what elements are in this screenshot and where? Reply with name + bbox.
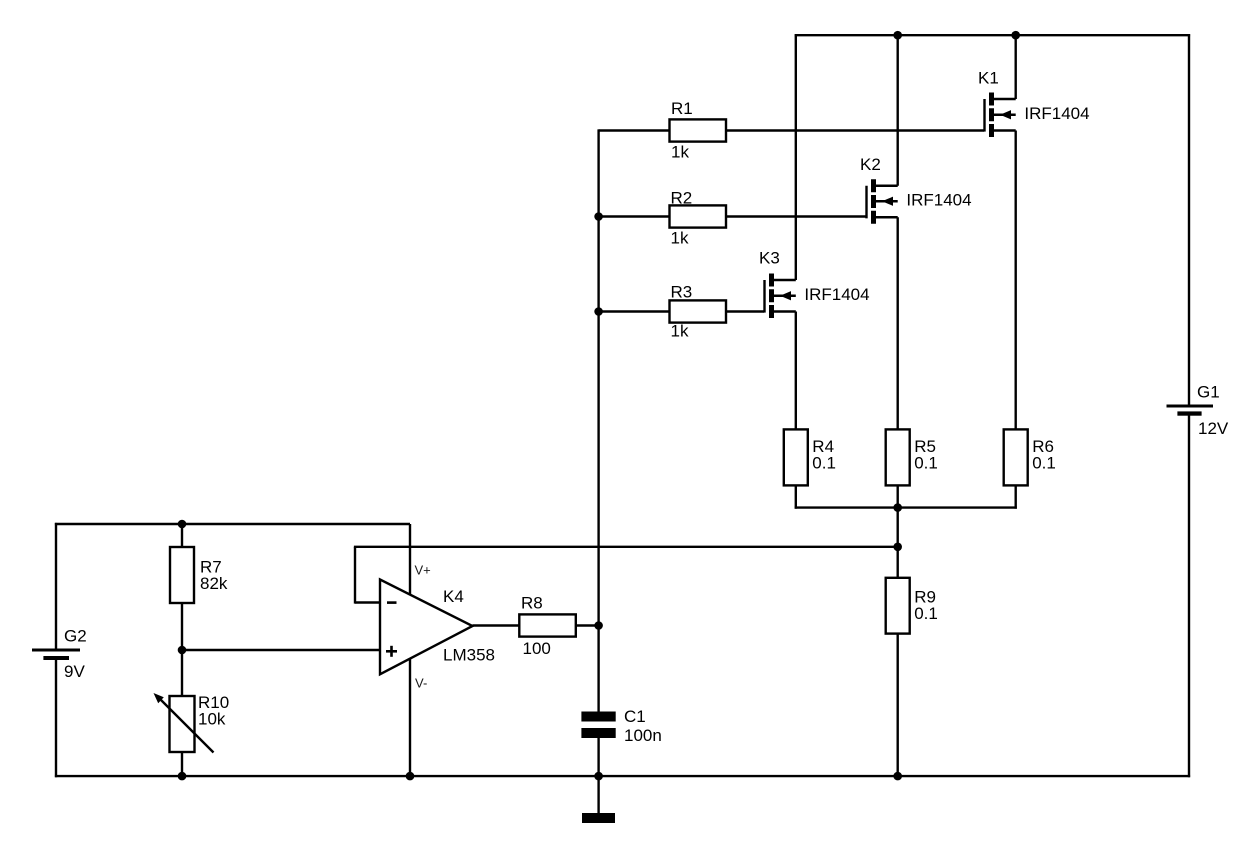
wire K3 source drop to R4 [795,312,797,430]
wire top rail [795,34,1190,36]
wire left bus G2 upper [55,523,57,649]
svg-text:R8: R8 [521,594,543,613]
transistor K3 IRF1404 [765,274,796,319]
wire top-left rail [55,523,410,525]
svg-text:C1: C1 [624,707,646,726]
wire K2 source drop to R5 [897,217,899,429]
wire R3 to K3 gate [726,310,764,312]
svg-text:0.1: 0.1 [914,453,938,472]
node bottom C1 [594,772,603,781]
wire K3 drain horizontal [774,279,796,281]
resistor R4 [784,429,808,485]
svg-text:G2: G2 [64,627,87,646]
wire R6 bottom [1015,485,1017,508]
svg-text:LM358: LM358 [443,646,495,665]
svg-text:IRF1404: IRF1404 [906,190,971,209]
wire op-amp V- [409,658,411,776]
node gate bus R2 [594,212,603,221]
wire R4 bottom [795,485,797,508]
wire R8 to node [576,624,599,626]
node divider mid [178,646,187,655]
svg-text:G1: G1 [1197,383,1220,402]
wire left bus G2 lower [55,660,57,777]
svg-text:K3: K3 [759,249,780,268]
node R7 top [178,520,187,529]
resistor R1 [670,119,727,141]
svg-text:12V: 12V [1198,419,1229,438]
resistor R9 [886,578,910,634]
wire K1 source horizontal [994,129,1016,131]
transistor K2 IRF1404 [867,179,898,224]
svg-text:0.1: 0.1 [914,604,938,623]
resistor R8 [519,614,576,636]
svg-text:1k: 1k [671,143,689,162]
svg-text:100: 100 [523,639,551,658]
wire R7 to node [181,603,183,650]
node gate bus R3 [594,307,603,316]
wire R1 to K1 gate [726,129,984,131]
svg-text:K4: K4 [443,587,464,606]
wire R2 to K2 gate [726,215,866,217]
wire R3 left [599,310,670,312]
wire feedback line [354,546,898,548]
wire K3 source horizontal [774,310,796,312]
wire gate bus vertical [597,129,599,711]
node bottom R9 [893,772,902,781]
svg-text:K1: K1 [978,69,999,88]
wire R1 left [599,129,670,131]
wire R2 left [599,215,670,217]
wire C1 bottom [597,738,599,776]
svg-text:R3: R3 [671,283,693,302]
battery G2 [32,649,80,661]
resistor R7 [170,547,194,603]
svg-text:100n: 100n [624,726,662,745]
capacitor C1 [581,712,615,739]
resistor R3 [670,300,727,322]
svg-text:IRF1404: IRF1404 [1024,104,1089,123]
wire R9 bottom [897,634,899,777]
wire bottom rail [55,775,1190,777]
wire source bottom rail R4-R6 [795,506,1017,508]
svg-text:V-: V- [415,676,427,691]
op-amp K4 LM358 [380,580,473,675]
wire minus input stub [355,601,380,603]
wire right bus lower from G1 [1188,416,1190,778]
node source rail [893,503,902,512]
svg-text:1k: 1k [671,229,689,248]
svg-text:K2: K2 [860,155,881,174]
svg-text:0.1: 0.1 [812,453,836,472]
wire R10 top [181,650,183,696]
wire R10 bottom [181,752,183,776]
svg-text:10k: 10k [198,710,226,729]
node bottom V- [406,772,415,781]
wire K2 source horizontal [876,216,898,218]
wire K1 drain riser [1015,35,1017,99]
wire K2 drain riser [897,35,899,186]
wire R5 bottom to R9 [897,485,899,577]
wire K2 drain horizontal [876,185,898,187]
wire ground stub [597,776,599,813]
svg-text:V+: V+ [415,563,431,578]
transistor K1 IRF1404 [985,93,1016,138]
svg-text:IRF1404: IRF1404 [804,285,869,304]
resistor R10 [170,696,195,752]
svg-text:82k: 82k [200,574,228,593]
wire K1 drain horizontal [994,98,1016,100]
node top rail K2 [893,31,902,40]
resistor R5 [886,429,910,485]
node top rail K1 [1011,31,1020,40]
wire op-amp output [473,624,520,626]
svg-text:R2: R2 [671,189,693,208]
svg-text:1k: 1k [671,322,689,341]
node R8 output [594,621,603,630]
wire op-amp V+ [409,524,411,595]
wire K3 drain riser [795,34,797,280]
ground [582,813,615,823]
wire right bus upper to G1 [1188,34,1190,404]
wire R7 top [181,524,183,547]
wire K1 source drop to R6 [1015,131,1017,430]
node bottom R10 [178,772,187,781]
svg-text:0.1: 0.1 [1032,453,1056,472]
resistor R2 [670,205,727,227]
potentiometer arrow R10 [154,693,214,753]
svg-text:R1: R1 [671,99,693,118]
node feedback tap [893,543,902,552]
wire minus loop vertical [354,547,356,604]
svg-text:9V: 9V [64,662,85,681]
resistor R6 [1004,429,1028,485]
wire plus input [182,649,380,651]
battery G1 [1167,405,1214,416]
